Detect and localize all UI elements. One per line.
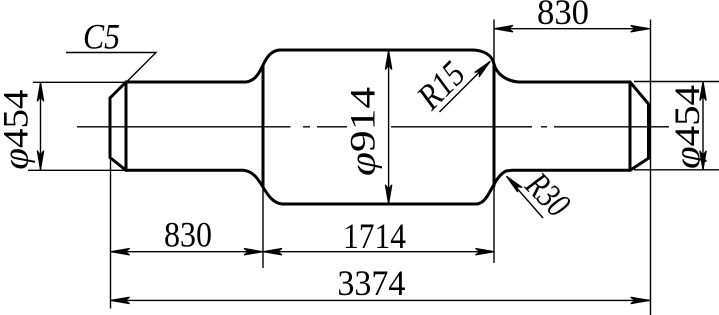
svg-text:φ454: φ454 (667, 85, 707, 169)
svg-text:φ454: φ454 (0, 90, 36, 170)
svg-text:3374: 3374 (337, 263, 405, 303)
svg-text:1714: 1714 (343, 216, 406, 256)
svg-text:R15: R15 (409, 53, 473, 117)
svg-text:830: 830 (164, 214, 212, 254)
svg-text:C5: C5 (83, 16, 120, 56)
svg-text:R30: R30 (517, 164, 578, 225)
svg-text:φ914: φ914 (343, 87, 383, 176)
svg-text:830: 830 (537, 0, 589, 32)
